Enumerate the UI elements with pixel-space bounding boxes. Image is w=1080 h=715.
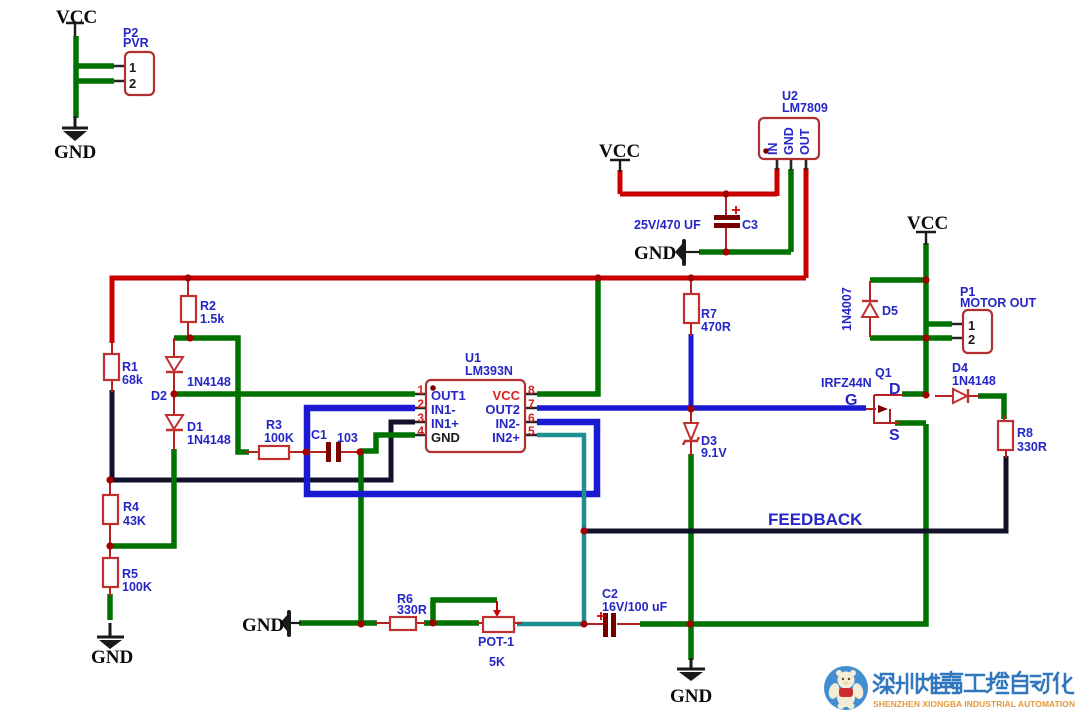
- svg-text:R3: R3: [266, 418, 282, 432]
- svg-text:LM7809: LM7809: [782, 101, 828, 115]
- svg-text:16V/100 uF: 16V/100 uF: [602, 600, 668, 614]
- wire P1 pin2 (green): [926, 335, 952, 341]
- ground symbol (below R5): [97, 623, 124, 637]
- wire R5 bottom to GND (green): [107, 594, 113, 620]
- wire VCC to P2 (green): [76, 36, 114, 118]
- svg-text:PVR: PVR: [123, 36, 149, 50]
- wire POT right to teal column (teal): [517, 622, 584, 627]
- svg-text:GND: GND: [54, 142, 96, 163]
- diode D4 1N4148: [953, 389, 967, 403]
- wire C1 junction down to ground row (green): [358, 452, 364, 624]
- 化: [1054, 673, 1073, 693]
- power VCC symbol (P2): [66, 23, 84, 36]
- wire U2 GND to ground (green): [699, 169, 791, 252]
- svg-text:S: S: [889, 427, 900, 444]
- svg-text:C3: C3: [742, 218, 758, 232]
- svg-text:LM393N: LM393N: [465, 364, 513, 378]
- svg-text:330R: 330R: [1017, 440, 1047, 454]
- 深: [874, 674, 894, 693]
- svg-text:VCC: VCC: [56, 7, 97, 28]
- svg-text:D5: D5: [882, 304, 898, 318]
- 工: [965, 675, 985, 691]
- Chinese company name (drawn glyphs): [874, 672, 1073, 693]
- svg-text:9.1V: 9.1V: [701, 446, 727, 460]
- svg-text:GND: GND: [431, 430, 460, 445]
- wire P1 pin1 (green): [926, 321, 952, 327]
- junction R6/wiper: [429, 619, 436, 626]
- svg-text:6: 6: [528, 411, 535, 425]
- potentiometer wiper arrow: [496, 601, 498, 610]
- ground arrow symbol (near C3): [682, 239, 686, 266]
- svg-text:1: 1: [129, 60, 136, 75]
- svg-text:1N4007: 1N4007: [840, 287, 854, 331]
- svg-text:GND: GND: [242, 615, 284, 636]
- svg-text:VCC: VCC: [907, 213, 948, 234]
- junction teal/FEEDBACK: [580, 527, 587, 534]
- svg-text:2: 2: [417, 397, 424, 411]
- ground symbol (below P2): [62, 116, 88, 128]
- svg-text:4: 4: [417, 424, 424, 438]
- 圳: [897, 674, 917, 693]
- svg-text:MOTOR OUT: MOTOR OUT: [960, 296, 1037, 310]
- connector P2: [125, 52, 154, 95]
- svg-text:68k: 68k: [122, 373, 143, 387]
- svg-text:GND: GND: [782, 127, 796, 155]
- diode D5 1N4007: [862, 303, 878, 317]
- 自: [1013, 672, 1027, 693]
- svg-text:1: 1: [417, 383, 424, 397]
- junction VCC/C3 top: [722, 190, 729, 197]
- 动: [1031, 674, 1052, 693]
- svg-text:1N4148: 1N4148: [952, 374, 996, 388]
- wire black bus to U1 pin3 IN1+ (black): [108, 422, 415, 480]
- svg-text:R4: R4: [123, 500, 139, 514]
- svg-text:IN2-: IN2-: [495, 416, 520, 431]
- junction D5 bottom/P1 pin2: [922, 334, 929, 341]
- svg-text:OUT2: OUT2: [485, 402, 520, 417]
- capacitor C3 25V/470uF: [714, 215, 740, 220]
- svg-text:R2: R2: [200, 299, 216, 313]
- junction D2/OUT1 wire: [170, 390, 177, 397]
- resistor R5: [103, 558, 118, 587]
- ground arrow symbol (near R6): [287, 610, 291, 637]
- pin stubs (dark): [114, 66, 963, 435]
- svg-text:IN1-: IN1-: [431, 402, 456, 417]
- resistor R6: [390, 617, 416, 630]
- wire POT wiper loop (green): [433, 600, 497, 623]
- svg-text:G: G: [845, 392, 857, 409]
- svg-text:R1: R1: [122, 360, 138, 374]
- junction R7/OUT2: [687, 405, 694, 412]
- wire POT to C2 and U1 pin5 (teal): [537, 435, 584, 624]
- wire FEEDBACK (black): [584, 456, 1006, 531]
- junction R4/R5/D1: [106, 542, 113, 549]
- svg-text:7: 7: [528, 397, 535, 411]
- junction ground row/C1 column: [357, 620, 364, 627]
- svg-text:5K: 5K: [489, 655, 505, 669]
- 雄: [919, 674, 939, 693]
- wire U1 pin8 VCC to rail (green): [537, 279, 598, 394]
- svg-text:U1: U1: [465, 351, 481, 365]
- resistor R8: [998, 421, 1013, 450]
- wire thin leads (dark red): [110, 194, 1004, 624]
- resistor R2: [181, 296, 196, 322]
- svg-text:C2: C2: [602, 587, 618, 601]
- wire D2 to U1 pin1 OUT1 (green): [174, 391, 415, 397]
- wire D3 bottom through ground row to GND (green): [688, 454, 694, 660]
- op-amp U1 LM393N box: [426, 380, 525, 452]
- svg-text:D4: D4: [952, 361, 968, 375]
- junction rail/R2: [184, 274, 191, 281]
- power VCC symbol (P1): [916, 232, 936, 245]
- svg-text:43K: 43K: [123, 514, 146, 528]
- junction C1/U1 pin4: [356, 448, 363, 455]
- svg-text:3: 3: [417, 411, 424, 425]
- svg-text:GND: GND: [634, 243, 676, 264]
- wire D5 top branch (green): [870, 277, 926, 283]
- svg-text:100K: 100K: [122, 580, 152, 594]
- svg-text:D1: D1: [187, 420, 203, 434]
- svg-text:100K: 100K: [264, 431, 294, 445]
- svg-text:VCC: VCC: [599, 141, 640, 162]
- svg-text:SHENZHEN XIONGBA INDUSTRIAL AU: SHENZHEN XIONGBA INDUSTRIAL AUTOMATION: [873, 699, 1075, 709]
- svg-text:2: 2: [129, 76, 136, 91]
- svg-text:5: 5: [528, 424, 535, 438]
- wire R2 bottom to R3 (green): [174, 338, 249, 452]
- wire D1 bottom to R4/R5 junction (green): [110, 449, 174, 546]
- wire C1 right to U1 pin4 GND (green): [360, 435, 415, 451]
- svg-text:VCC: VCC: [493, 388, 521, 403]
- capacitor C1 103: [326, 442, 331, 462]
- wire ground row left: GND arrow to R6 (green): [299, 620, 377, 626]
- 霸: [941, 672, 962, 693]
- junction C3 bottom/ground: [722, 248, 729, 255]
- wire R6 to POT (green): [424, 620, 479, 626]
- svg-text:OUT1: OUT1: [431, 388, 466, 403]
- svg-text:C1: C1: [311, 428, 327, 442]
- wire C2 right to D3 column (green): [640, 621, 691, 627]
- svg-text:IN1+: IN1+: [431, 416, 459, 431]
- wire U1 pin2 to pin6 loop (blue): [307, 408, 597, 494]
- junction drain/D4: [922, 391, 929, 398]
- wire MOSFET drain to junction (green): [902, 391, 924, 397]
- potentiometer POT-1: [483, 617, 514, 632]
- svg-text:R5: R5: [122, 567, 138, 581]
- svg-text:POT-1: POT-1: [478, 635, 514, 649]
- junction C2/D3 ground: [686, 620, 693, 627]
- wire D4 to R8 top (green): [978, 396, 1004, 419]
- junction R3/C1: [302, 448, 309, 455]
- zener diode D3 9.1V: [684, 423, 698, 440]
- wire U1 pin7 OUT2 to MOSFET gate (blue): [537, 405, 866, 411]
- wire MOSFET source to column (green): [895, 420, 926, 426]
- diode D2 1N4148: [166, 357, 183, 371]
- transistor Q1 IRFZ44N symbol: [866, 395, 903, 424]
- svg-text:330R: 330R: [397, 603, 427, 617]
- svg-text:FEEDBACK: FEEDBACK: [768, 510, 863, 529]
- junction R1/R4/black bus: [106, 476, 113, 483]
- LOGO: [824, 666, 1075, 710]
- wire D5 bottom branch (green): [870, 335, 926, 341]
- svg-text:D: D: [889, 381, 901, 398]
- junction rail/R7: [687, 274, 694, 281]
- svg-text:IN2+: IN2+: [492, 430, 520, 445]
- junction R2 bottom/D2: [186, 334, 193, 341]
- resistor R1: [104, 354, 119, 380]
- capacitor C2 16V/100uF: [603, 613, 608, 637]
- svg-text:R8: R8: [1017, 426, 1033, 440]
- svg-text:2: 2: [968, 332, 975, 347]
- svg-text:R7: R7: [701, 307, 717, 321]
- svg-text:1N4148: 1N4148: [187, 433, 231, 447]
- diode D1 1N4148: [166, 415, 183, 429]
- 控: [987, 673, 1008, 693]
- svg-text:IRFZ44N: IRFZ44N: [821, 376, 872, 390]
- svg-text:OUT: OUT: [798, 128, 812, 155]
- svg-text:470R: 470R: [701, 320, 731, 334]
- wire main VCC rail (red): [112, 278, 806, 343]
- wire U2 OUT down (red): [804, 168, 809, 278]
- wire R1 bottom to black bus (black): [110, 390, 115, 480]
- svg-text:Q1: Q1: [875, 366, 892, 380]
- wire VCC to P1/drain column (green): [923, 243, 929, 394]
- svg-text:25V/470 UF: 25V/470 UF: [634, 218, 701, 232]
- ground symbol (below C2/D3): [677, 658, 705, 669]
- junction POT/teal/C2: [580, 620, 587, 627]
- svg-text:103: 103: [337, 431, 358, 445]
- svg-text:1.5k: 1.5k: [200, 312, 224, 326]
- junction rail/U1 pin8: [594, 274, 601, 281]
- svg-text:D2: D2: [151, 389, 167, 403]
- resistor R3: [259, 446, 289, 459]
- wire R7 bottom to OUT2 (blue): [689, 334, 694, 410]
- svg-text:GND: GND: [91, 647, 133, 668]
- connector P1: [963, 310, 992, 353]
- svg-text:1N4148: 1N4148: [187, 375, 231, 389]
- power VCC symbol (U2): [610, 160, 630, 172]
- svg-text:1: 1: [968, 318, 975, 333]
- resistor R7: [684, 294, 699, 323]
- svg-text:GND: GND: [670, 686, 712, 707]
- wire VCC to U2 IN (red): [620, 168, 777, 196]
- wire R8 bottom lead (thin): [1005, 450, 1007, 458]
- svg-text:IN: IN: [766, 143, 780, 156]
- regulator U2 LM7809 box: [759, 118, 819, 159]
- svg-text:8: 8: [528, 383, 535, 397]
- resistor R4: [103, 495, 118, 524]
- junction VCC/D5 top: [922, 276, 929, 283]
- wire ground row right to MOSFET source column (green): [691, 424, 926, 624]
